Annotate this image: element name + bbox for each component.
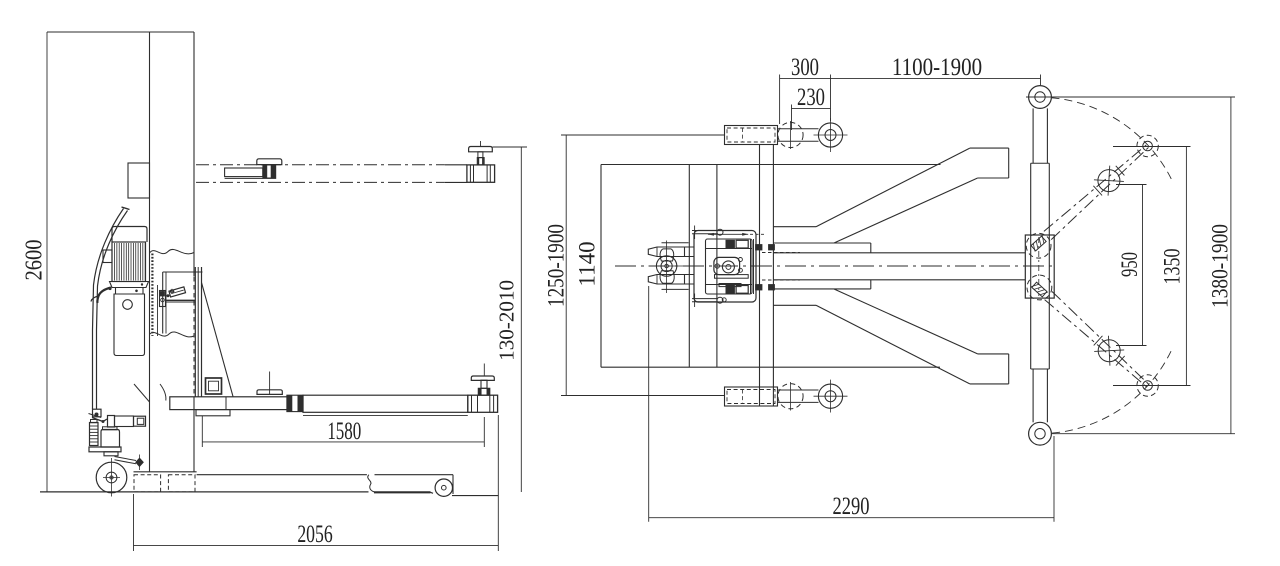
upper fork [648,247,684,257]
carriage bars [715,275,749,279]
truck hitch upper [692,230,717,232]
phantom swing arm upper [1051,147,1148,239]
arm inner section [170,397,288,410]
upper arm pivot [1026,233,1051,258]
lock spring block [160,291,166,307]
svg-text:1100-1900: 1100-1900 [892,52,982,80]
base break curve [368,475,374,492]
jack steer wheel [96,462,127,493]
carriage bottom plate [706,284,753,286]
dim 1100-1900 line [831,77,1041,79]
lower fork [648,275,684,285]
dim 2056 text [297,520,333,548]
dim 1380-1900 text [1207,224,1233,308]
break line upper [150,249,195,253]
jack anchor rod [115,457,137,461]
svg-text:2290: 2290 [833,491,870,519]
dim 2290 ext [648,286,650,522]
fork carrier plates [685,246,695,248]
wheel yoke lower [660,271,674,284]
carriage housing inner [706,239,753,294]
bottom link bar [778,389,819,391]
lower arm bill [970,383,1009,385]
dim 1580 ext lines [201,416,203,447]
dim 1100-1900 text [892,52,982,80]
svg-text:1140: 1140 [575,241,600,286]
dim 1580 text [327,417,361,445]
dim 1580 line [202,441,484,443]
chassis rail right [716,165,718,368]
dim 230 line [792,108,831,110]
dim 1350 ext [1113,146,1191,148]
arm junction block [287,395,303,411]
top link bar [778,128,819,130]
upper arm inner diagonal [834,178,978,243]
dim 1250-1900 ext [561,134,724,136]
drawbar beam [774,252,1026,254]
arm outer section [303,395,468,412]
arm mid pad [257,390,282,395]
top pad bracket [725,126,778,145]
oil tank [114,288,145,356]
top pivot pin [818,123,842,147]
lower arm pivot [1027,275,1052,300]
carriage drain [722,298,726,302]
steer wheel top view [656,256,676,276]
jack base plate [89,447,121,452]
svg-text:2600: 2600 [20,240,47,281]
motor top cap [112,227,147,243]
column main post [149,32,151,472]
motor base flange [110,282,149,288]
chassis bottom edge [601,366,940,368]
svg-text:300: 300 [791,52,819,80]
dim 1350 line [1185,147,1187,386]
svg-text:1350: 1350 [1161,249,1185,285]
jack push rod [108,416,115,428]
carriage right plate [750,239,752,294]
raised arm phantom lines [196,164,445,166]
bottom pivot pin [818,384,842,408]
chassis left edge / dim 1140 line [600,165,602,368]
carriage dashed links [762,252,800,254]
dim 300 ext [779,75,781,125]
dim 230 text [797,83,825,111]
phantom swing arm lower [1045,300,1147,387]
lock shelf [166,299,196,301]
dim 300 line [780,77,831,79]
dim 2290 text [833,491,870,519]
bottom pad phantom circle [778,384,803,409]
dim 2290 line [649,517,1054,519]
crossbar link bar [1032,108,1034,163]
wheel yoke upper [660,249,674,261]
svg-text:1580: 1580 [327,417,361,445]
bottom pad bracket [725,387,778,406]
dim 1100-1900 ext [830,75,832,122]
dim 950 line [1142,185,1144,346]
jack hydraulic body [101,430,120,448]
truck hitch lower [692,298,717,300]
center line [615,265,1057,267]
dim 2056 ext lines [133,494,135,551]
dim 2056 line [134,544,499,546]
upper arm bill [970,147,1009,149]
jack tiller handle [93,209,124,410]
dim 1250-1900 text [543,224,569,307]
dim 1140 text [575,241,600,286]
svg-text:2056: 2056 [297,520,333,548]
carriage top plate [706,248,753,250]
jack lever linkage [92,418,107,422]
dim 1380-1900 line [1230,97,1232,434]
dim 950 text [1117,252,1142,277]
motor body with cooling fins [112,242,146,282]
base dashed pocket right [168,475,195,492]
carriage motor top view [714,257,740,274]
dim 130-2010 ext line [493,146,528,148]
carriage section box [163,271,203,273]
vertical arm band [759,145,761,406]
dim 1350 text [1161,249,1185,285]
dim 230 ext [791,105,793,131]
svg-text:130-2010: 130-2010 [495,280,519,361]
chassis top edge [601,164,941,166]
dim 130-2010 line [520,147,522,492]
hose curve [160,384,166,401]
lower arm inner diagonal [834,289,978,354]
lock pawl [169,287,186,297]
arm end screw housing [468,395,498,412]
carriage internal dim [708,233,748,235]
dim 130-2010 text [495,280,519,361]
motor terminal box [103,250,112,263]
lock rack strip [151,254,153,337]
break line lower [150,332,195,337]
dim 1380-1900 ext [1026,96,1235,98]
lower arm outer diagonal [816,305,970,384]
dim 950 ext [1116,184,1147,186]
arm under plate [196,410,230,416]
jack pump cylinder [90,423,99,446]
svg-text:230: 230 [797,83,825,111]
base plate line [134,471,197,473]
svg-text:950: 950 [1117,252,1142,277]
raised arm mid pad [257,159,282,165]
dim 300 text [791,52,819,80]
chassis rail left [688,165,690,368]
svg-text:1380-1900: 1380-1900 [1207,224,1233,308]
arm pivot block [206,378,222,394]
dim 2600 line [46,32,48,492]
swing arc upper [1052,98,1174,183]
dim 2600 text [20,240,47,281]
column cap small bracket [128,163,150,198]
carriage gusset [202,283,234,397]
pivot block [1025,235,1054,298]
column inner wall [157,285,159,336]
carriage housing outer [694,231,756,303]
raised arm inner tube [225,168,263,177]
arm screw T-handle [471,376,494,380]
base roller [435,479,452,496]
base dashed pocket left [134,475,161,492]
jack rod end socket [134,416,146,426]
ground line [40,491,369,493]
upper arm outer diagonal [816,148,970,227]
crossbar bottom eye [1029,422,1052,445]
raised arm screw housing [467,165,495,182]
arm screw block [478,388,490,395]
raised screw T-handle [469,147,493,152]
carriage plates [194,267,196,397]
raised screw stem [478,152,483,158]
jack support strut [134,384,150,402]
release lever [97,288,111,304]
arm screw stem [481,380,487,388]
raised screw block [477,158,484,165]
base frame top [197,474,367,476]
tank filler cap [123,300,133,310]
crossbar top eye [1029,86,1052,109]
upper side plate [774,242,871,244]
dim 1250-1900 line [565,135,567,396]
swing arc lower [1052,349,1172,433]
lock pivot [170,290,173,293]
svg-text:1250-1900: 1250-1900 [543,224,569,307]
base bottom thick [374,491,431,493]
carriage clamp blocks [756,245,763,251]
top pad phantom circle [778,122,803,147]
lower side plate [774,288,871,290]
jack wheel stem [104,452,118,456]
